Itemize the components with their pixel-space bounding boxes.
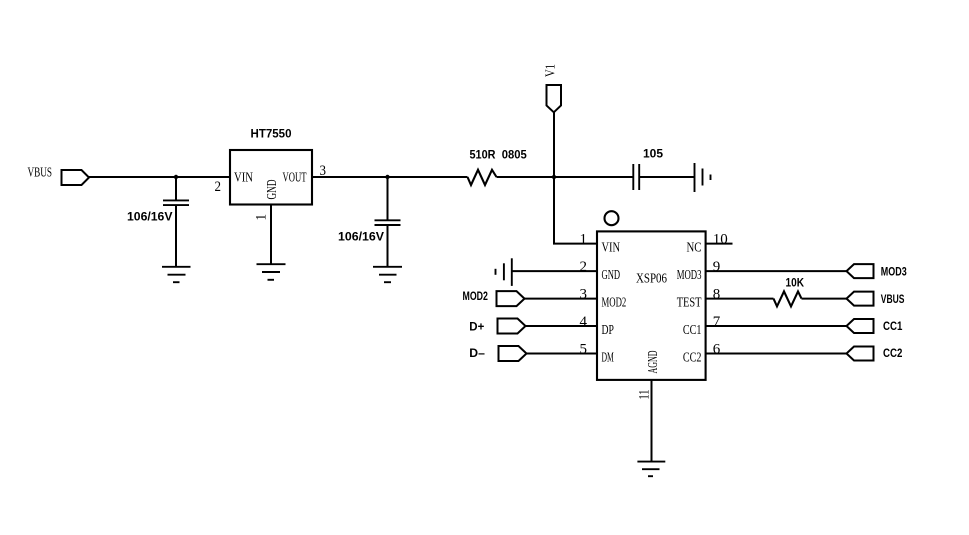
capacitor C3 105	[633, 149, 663, 191]
svg-text:V1: V1	[544, 64, 559, 77]
ground (below C1)	[162, 267, 191, 282]
svg-text:1: 1	[254, 214, 270, 221]
svg-text:VIN: VIN	[234, 171, 253, 186]
connector MOD2	[463, 291, 525, 306]
capacitor C1 106/16V	[127, 200, 189, 223]
svg-text:8: 8	[713, 286, 721, 302]
wire MOD2 to XSP06 pin 3	[525, 298, 598, 300]
connector D-	[469, 346, 526, 361]
svg-text:4: 4	[580, 314, 588, 330]
svg-text:0805: 0805	[502, 150, 528, 162]
svg-text:XSP06: XSP06	[636, 271, 667, 286]
regulator U? HT7550 body	[230, 129, 312, 205]
svg-text:11: 11	[637, 390, 653, 400]
wire resistor 10K to VBUS connector	[802, 298, 847, 300]
ground (below XSP06 AGND)	[637, 462, 665, 477]
svg-text:MOD2: MOD2	[602, 296, 627, 311]
ground (below C2)	[373, 267, 402, 282]
wire XSP06 pin 8 to resistor 10K	[706, 298, 774, 300]
connector CC1	[847, 319, 903, 333]
connector VBUS (right port)	[847, 292, 905, 306]
wire C3 to ground	[639, 176, 694, 178]
svg-text:2: 2	[580, 259, 588, 275]
wire D- to XSP06 pin 5	[527, 353, 598, 355]
svg-text:VIN: VIN	[602, 241, 621, 256]
svg-text:CC2: CC2	[683, 351, 702, 366]
wire D+ to XSP06 pin 4	[526, 325, 598, 327]
svg-text:10K: 10K	[786, 278, 805, 290]
svg-text:9: 9	[713, 259, 721, 275]
connector MOD3	[847, 264, 907, 278]
svg-text:GND: GND	[265, 180, 280, 200]
wire VBUS to VIN of HT7550	[89, 176, 230, 178]
svg-text:CC1: CC1	[683, 323, 702, 338]
wire XSP06 pin 7 to CC1 connector	[706, 325, 847, 327]
connector D+	[469, 319, 525, 334]
wire C2 to ground	[387, 225, 389, 267]
svg-text:DM: DM	[602, 351, 615, 366]
svg-text:GND: GND	[602, 268, 621, 283]
svg-text:DP: DP	[602, 323, 615, 338]
node junction at C1	[174, 175, 178, 179]
wire VOUT to resistor	[312, 176, 468, 178]
svg-text:TEST: TEST	[677, 296, 702, 311]
pin-1 indicator circle	[605, 211, 619, 225]
connector CC2	[847, 347, 903, 361]
svg-text:D–: D–	[469, 348, 485, 360]
wire C1 to ground	[175, 205, 177, 267]
svg-text:MOD3: MOD3	[677, 268, 702, 283]
node junction at C2	[385, 175, 389, 179]
wire HT7550 GND pin to ground	[270, 205, 272, 265]
svg-text:6: 6	[713, 341, 721, 357]
wire XSP06 pin 11 AGND to ground	[651, 380, 653, 462]
svg-text:2: 2	[215, 179, 222, 195]
svg-text:7: 7	[713, 314, 721, 330]
svg-text:VBUS: VBUS	[28, 166, 53, 181]
svg-text:10: 10	[713, 231, 728, 247]
svg-text:CC1: CC1	[883, 321, 903, 333]
wire junction down to XSP06 pin 1	[554, 177, 597, 244]
svg-text:MOD3: MOD3	[881, 267, 907, 279]
ground (XSP06 pin 2, rotated)	[496, 258, 512, 286]
svg-text:CC2: CC2	[883, 348, 902, 360]
wire ground to XSP06 pin 2	[512, 270, 597, 272]
svg-text:AGND: AGND	[646, 351, 661, 374]
svg-text:VOUT: VOUT	[283, 171, 307, 186]
svg-text:VBUS: VBUS	[881, 294, 905, 306]
svg-text:1: 1	[580, 231, 588, 247]
ground (below HT7550)	[257, 264, 286, 280]
resistor R? 510R 0805	[468, 150, 528, 186]
resistor R? 10K	[774, 278, 805, 307]
svg-text:D+: D+	[469, 322, 484, 334]
svg-text:105: 105	[643, 149, 664, 161]
svg-text:3: 3	[580, 286, 588, 302]
connector V1 (top port)	[544, 64, 562, 112]
svg-text:MOD2: MOD2	[463, 291, 488, 303]
ground (right of C3, rotated)	[695, 163, 711, 192]
wire XSP06 pin 10 NC stub	[706, 243, 733, 245]
IC U? XSP06 body	[597, 231, 706, 380]
wire XSP06 pin 9 to MOD3 connector	[706, 270, 847, 272]
svg-text:HT7550: HT7550	[251, 129, 292, 141]
svg-text:106/16V: 106/16V	[338, 232, 384, 244]
svg-text:510R: 510R	[470, 150, 497, 162]
wire resistor to C3	[497, 176, 634, 178]
node junction at V1	[552, 175, 556, 179]
wire V1 stem	[553, 111, 555, 177]
capacitor C2 106/16V	[338, 220, 401, 243]
svg-text:NC: NC	[687, 241, 702, 256]
svg-text:106/16V: 106/16V	[127, 212, 173, 224]
wire C1 branch upper	[175, 177, 177, 200]
wire XSP06 pin 6 to CC2 connector	[706, 353, 847, 355]
svg-text:5: 5	[580, 341, 588, 357]
wire C2 branch upper	[387, 177, 389, 220]
connector VBUS (left input port)	[28, 166, 90, 186]
